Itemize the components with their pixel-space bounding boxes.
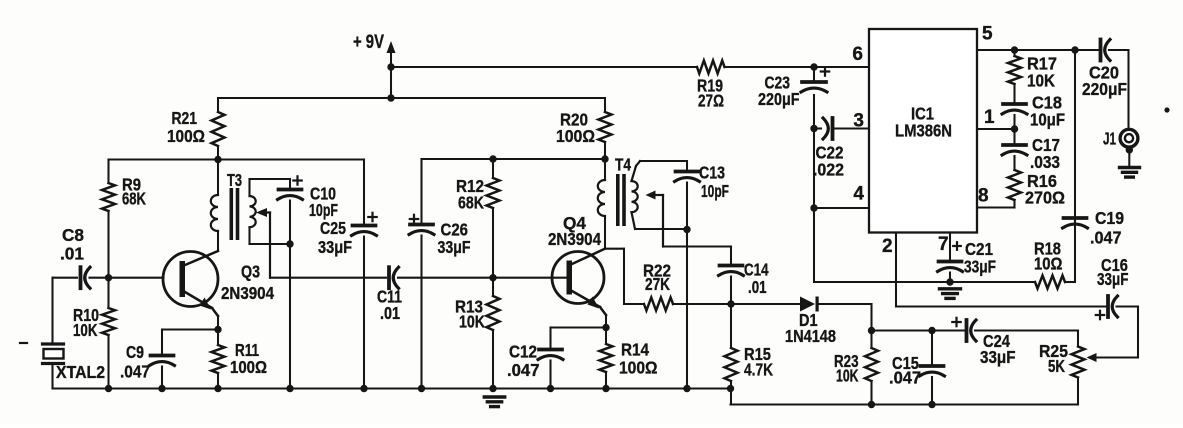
svg-text:33μF: 33μF	[1097, 269, 1129, 289]
svg-text:10K: 10K	[1027, 71, 1055, 91]
svg-text:2N3904: 2N3904	[548, 229, 601, 249]
svg-text:220μF: 220μF	[1082, 79, 1127, 99]
svg-text:.033: .033	[1030, 152, 1060, 172]
svg-text:C19: C19	[1095, 208, 1124, 228]
svg-text:33μF: 33μF	[964, 257, 996, 277]
svg-text:100Ω: 100Ω	[167, 126, 205, 146]
svg-text:1N4148: 1N4148	[785, 326, 836, 346]
svg-text:R21: R21	[172, 108, 198, 128]
svg-text:.01: .01	[60, 244, 84, 264]
svg-text:C8: C8	[62, 225, 84, 245]
svg-text:68K: 68K	[122, 189, 146, 209]
svg-text:100Ω: 100Ω	[556, 126, 595, 146]
svg-text:5K: 5K	[1048, 356, 1065, 376]
svg-text:2N3904: 2N3904	[221, 283, 274, 303]
svg-text:C12: C12	[509, 342, 537, 362]
svg-text:Q3: Q3	[241, 262, 260, 282]
svg-text:.01: .01	[748, 277, 767, 297]
svg-text:.047: .047	[507, 360, 540, 380]
svg-text:4.7K: 4.7K	[744, 360, 773, 380]
svg-text:.022: .022	[813, 160, 844, 180]
svg-text:J1: J1	[1103, 129, 1116, 149]
svg-text:100Ω: 100Ω	[230, 357, 267, 377]
svg-text:270Ω: 270Ω	[1025, 188, 1065, 208]
svg-text:100Ω: 100Ω	[619, 358, 658, 378]
svg-text:.047: .047	[889, 368, 921, 388]
svg-text:33μF: 33μF	[318, 237, 352, 257]
svg-text:.01: .01	[380, 303, 400, 323]
svg-text:33μF: 33μF	[980, 347, 1016, 367]
svg-text:4: 4	[853, 184, 864, 205]
svg-text:T3: T3	[227, 170, 242, 190]
svg-text:1: 1	[984, 107, 995, 128]
svg-text:C13: C13	[699, 163, 725, 183]
svg-text:33μF: 33μF	[438, 237, 471, 257]
svg-text:10μF: 10μF	[1030, 110, 1065, 130]
svg-text:10K: 10K	[73, 320, 98, 340]
svg-text:10pF: 10pF	[309, 200, 338, 220]
svg-text:8: 8	[978, 186, 989, 207]
svg-text:6: 6	[852, 44, 863, 65]
svg-text:10K: 10K	[836, 366, 859, 386]
svg-text:27K: 27K	[645, 274, 670, 294]
svg-text:T4: T4	[615, 155, 631, 175]
svg-text:2: 2	[882, 236, 893, 257]
svg-text:10pF: 10pF	[701, 181, 729, 201]
svg-text:.047: .047	[1090, 228, 1122, 248]
svg-text:7: 7	[938, 234, 949, 255]
svg-text:27Ω: 27Ω	[698, 91, 724, 111]
svg-text:5: 5	[982, 24, 993, 45]
svg-text:68K: 68K	[458, 193, 484, 213]
svg-text:3: 3	[853, 111, 864, 132]
svg-text:LM386N: LM386N	[895, 121, 952, 141]
svg-text:XTAL2: XTAL2	[56, 362, 105, 382]
svg-text:10K: 10K	[459, 312, 485, 332]
svg-text:.047: .047	[120, 362, 150, 382]
svg-text:+ 9V: + 9V	[353, 32, 384, 53]
svg-text:C25: C25	[320, 218, 346, 238]
svg-text:R14: R14	[621, 340, 649, 360]
svg-text:10Ω: 10Ω	[1034, 254, 1063, 274]
svg-text:C9: C9	[126, 342, 144, 362]
svg-text:220μF: 220μF	[758, 89, 800, 109]
